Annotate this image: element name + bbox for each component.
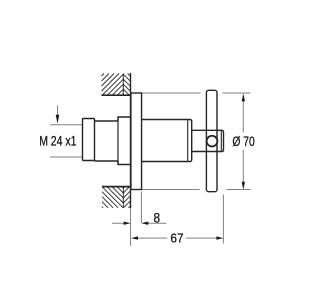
svg-text:67: 67 (170, 231, 183, 246)
svg-text:8: 8 (154, 210, 161, 225)
svg-text:Ø 70: Ø 70 (232, 134, 254, 149)
svg-text:M 24 x1: M 24 x1 (39, 133, 76, 148)
